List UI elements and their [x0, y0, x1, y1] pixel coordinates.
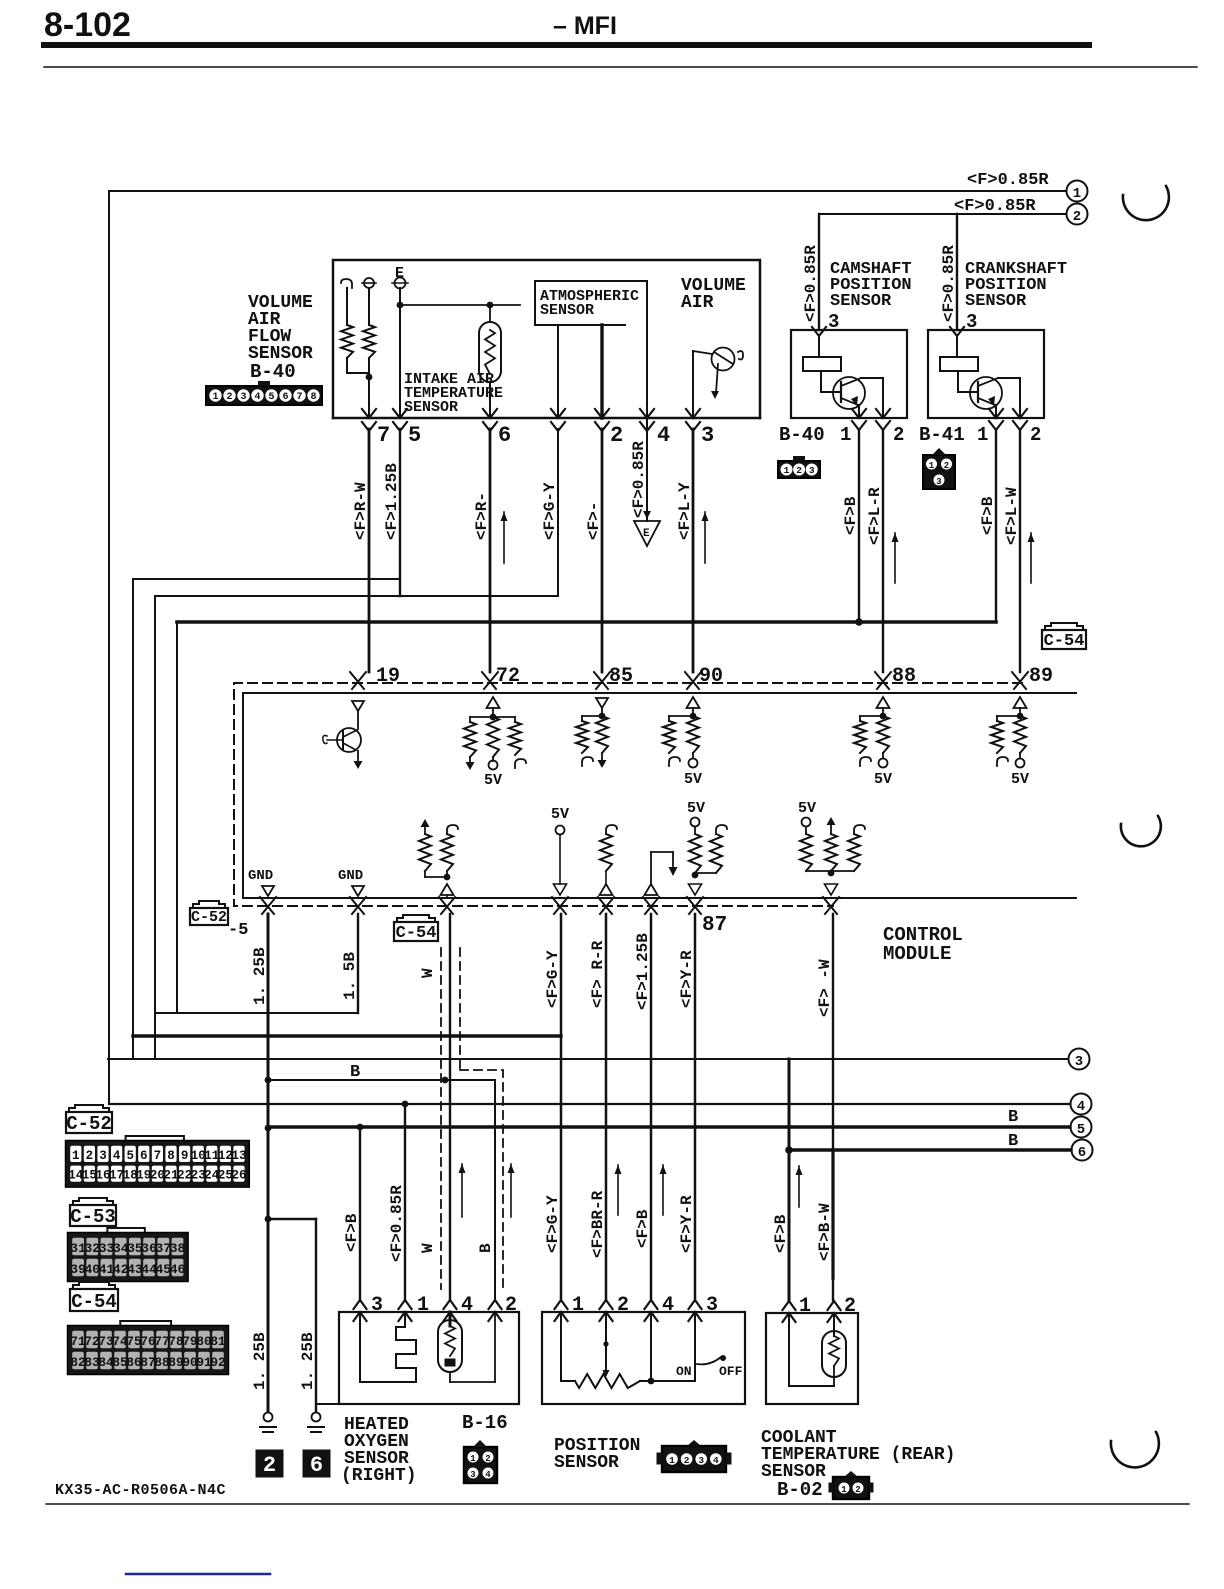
label CAMSHAFT POSITION SENSOR [830, 260, 912, 311]
module pin85 resistors [576, 698, 608, 768]
svg-text:6: 6 [310, 1453, 323, 1478]
O2 sensor pin 4 [444, 1294, 474, 1321]
svg-text:5: 5 [408, 423, 421, 448]
svg-text:8: 8 [167, 1149, 175, 1163]
svg-text:<F>Y-R: <F>Y-R [678, 950, 696, 1008]
svg-text:88: 88 [154, 1356, 169, 1370]
svg-text:<F>G-Y: <F>G-Y [544, 1195, 562, 1253]
position sensor pin 4 [645, 1294, 675, 1321]
wire 1 ignition feed horizontal [109, 190, 1066, 192]
scan artifact blue line [126, 1573, 270, 1576]
shield dashed around W/B wires [441, 948, 503, 1289]
svg-text:4: 4 [113, 1149, 121, 1163]
svg-text:85: 85 [609, 665, 633, 688]
svg-text:1: 1 [929, 461, 935, 471]
label (F)G-Y [544, 1195, 562, 1253]
svg-text:38: 38 [170, 1241, 186, 1256]
module pin19 triangle [352, 701, 364, 711]
label (F)G-Y atmospheric [541, 482, 559, 540]
svg-text:ON: ON [676, 1364, 692, 1379]
label ATMOSPHERIC SENSOR [540, 288, 639, 319]
label W bottom [419, 1243, 437, 1253]
wire camshaft collector to pin 2 [861, 378, 883, 418]
svg-text:W: W [419, 968, 437, 978]
module pin 90 [685, 665, 723, 689]
connector C-54 label mid [394, 915, 438, 943]
label (F)0.85R crankshaft [940, 245, 958, 322]
label INTAKE AIR TEMPERATURE SENSOR [404, 371, 503, 416]
module 5V feed G-Y pin [551, 806, 569, 895]
svg-text:1: 1 [977, 424, 988, 446]
svg-text:7: 7 [154, 1149, 162, 1163]
wire left vertical bus from wire 1 [108, 191, 110, 1104]
wire (F)B to coolant pin1 [788, 1059, 791, 1300]
svg-text:<F>L-W: <F>L-W [1003, 487, 1021, 545]
module bottom pin arrow x695 [687, 897, 703, 914]
wire crankshaft collector to pin 2 [998, 378, 1020, 418]
module bottom pin arrow x268 [260, 897, 276, 914]
svg-text:E: E [643, 528, 650, 540]
svg-text:C-52: C-52 [191, 909, 227, 926]
label (F)BR-R [589, 1190, 607, 1258]
direction arrow crankshaft pin2 [1028, 533, 1035, 583]
svg-text:<F>0.85R: <F>0.85R [630, 441, 648, 518]
svg-text:<F>Y-R: <F>Y-R [678, 1195, 696, 1253]
svg-text:1: 1 [784, 465, 790, 476]
control module inner box [243, 693, 1076, 898]
svg-text:<F>0.85R: <F>0.85R [967, 171, 1049, 190]
label B-02 [777, 1479, 823, 1501]
svg-text:1: 1 [572, 1294, 584, 1317]
svg-text:B: B [477, 1243, 495, 1253]
label (F)L-Y [676, 482, 694, 540]
svg-text:W: W [419, 1243, 437, 1253]
svg-text:<F>G-Y: <F>G-Y [541, 482, 559, 540]
wire camshaft pin1 down [858, 430, 860, 622]
direction arrow W wire [459, 1164, 466, 1217]
connector C-53 pin table [68, 1228, 189, 1282]
O2 sensor pin 2 [489, 1294, 518, 1321]
module bottom pin arrow x447 [439, 897, 455, 914]
label (F)0.85R wire 1 [967, 171, 1049, 190]
connector icon B-40 3-pin [778, 456, 820, 478]
svg-text:13: 13 [231, 1149, 246, 1163]
label 1.5B [341, 952, 359, 1000]
header thin rule [44, 66, 1197, 68]
svg-text:80: 80 [196, 1335, 211, 1349]
position sensor switch [676, 1312, 743, 1381]
module pin 89 [1012, 665, 1053, 689]
svg-text:89: 89 [168, 1356, 183, 1370]
svg-text:5V: 5V [687, 800, 705, 817]
svg-text:88: 88 [892, 665, 916, 688]
scan crescent middle right [1121, 816, 1161, 846]
svg-text:AIR: AIR [681, 293, 714, 313]
svg-text:<F>L-Y: <F>L-Y [676, 482, 694, 540]
module bottom pin arrow x358 [350, 897, 366, 914]
wire camshaft pin2 to module 88 [882, 430, 884, 672]
crankshaft pin 3 [950, 311, 977, 336]
terminal circle 2 [1067, 204, 1088, 226]
node B tap [268, 1063, 495, 1083]
svg-text:7: 7 [377, 423, 390, 448]
connector C-54 label [70, 1282, 118, 1313]
svg-text:5V: 5V [1011, 771, 1029, 788]
connector C-52 label [66, 1105, 112, 1135]
O2 sensing cell [438, 1312, 495, 1382]
module bottom pin arrow x651 [643, 897, 659, 914]
module bottom pin arrow x560 [552, 897, 568, 914]
svg-text:5: 5 [1077, 1122, 1085, 1138]
label (F) R-R module [589, 940, 607, 1008]
module BR-R pull resistor [600, 825, 618, 895]
wire pin6 to module 72 [489, 429, 492, 672]
terminal circle 1 [1067, 181, 1088, 203]
direction arrow pin6 wire [501, 512, 508, 563]
terminal circle 3 [1069, 1049, 1090, 1071]
svg-text:<F>B: <F>B [634, 1209, 652, 1248]
svg-text:(RIGHT): (RIGHT) [341, 1466, 417, 1486]
O2 sensor pin 1 [399, 1294, 430, 1321]
connector C-52 label at module [190, 901, 248, 940]
connector icon B-02 [829, 1471, 873, 1499]
label B shielded [477, 1243, 495, 1253]
svg-text:5V: 5V [684, 771, 702, 788]
svg-text:83: 83 [84, 1356, 99, 1370]
wire camshaft feed from wire 2 [818, 214, 820, 330]
svg-text:<F>-: <F>- [585, 502, 603, 540]
wire 2 horizontal [819, 213, 1066, 215]
svg-text:26: 26 [231, 1169, 246, 1183]
wire (F)B-W to coolant pin2 [832, 914, 834, 1300]
svg-text:3: 3 [698, 1455, 704, 1466]
wire pin3 to module 90 [692, 429, 695, 672]
ground symbol 2 [256, 1413, 283, 1479]
terminal circle 4 [1071, 1094, 1092, 1116]
svg-text:4: 4 [713, 1455, 719, 1466]
wire B to O2 pin2 [494, 1080, 496, 1300]
svg-text:B-40: B-40 [779, 424, 825, 446]
label 1.25B [251, 947, 269, 1005]
module pin 72 [482, 665, 520, 689]
svg-text:<F>B: <F>B [772, 1214, 790, 1253]
svg-text:9: 9 [181, 1149, 189, 1163]
module W output resistors [419, 819, 458, 898]
crankshaft bottom pins [977, 409, 1041, 446]
svg-text:1: 1 [72, 1149, 80, 1163]
module bottom pin arrow x606 [598, 897, 614, 914]
bus wire y1036 heavy [133, 1034, 561, 1037]
module pin 85 [594, 665, 633, 689]
label 1.25B ground 2 [251, 1332, 269, 1390]
svg-text:91: 91 [196, 1356, 211, 1370]
connector C-53 label [70, 1198, 116, 1228]
wire (F)B to O2 pin3 [359, 1127, 361, 1300]
module pin 88 [875, 665, 916, 689]
svg-text:2: 2 [796, 465, 802, 476]
VAF pin 4 [640, 409, 670, 448]
direction arrow B wire [508, 1164, 515, 1217]
wire ground 6 to O2 shield [316, 1403, 339, 1405]
module pin90 resistors [663, 697, 702, 788]
label (F)R- [473, 492, 491, 540]
svg-text:6: 6 [1078, 1145, 1086, 1161]
terminal circle VAF middle [362, 278, 376, 288]
svg-text:<F>R-: <F>R- [473, 492, 491, 540]
svg-text:<F>1.25B: <F>1.25B [634, 933, 652, 1010]
svg-text:1: 1 [799, 1295, 811, 1318]
wire pin5 down [399, 429, 401, 596]
svg-text:2: 2 [485, 1454, 490, 1464]
svg-text:C-54: C-54 [396, 924, 437, 943]
svg-text:72: 72 [84, 1335, 99, 1349]
svg-text:4: 4 [485, 1470, 491, 1480]
label (F)-W module [816, 959, 834, 1017]
module pin72 pull resistors [464, 697, 526, 789]
svg-text:79: 79 [182, 1335, 197, 1349]
wire W shielded [449, 914, 451, 1300]
label (F)B position [634, 1209, 652, 1248]
wire atmospheric left leg G-Y [557, 325, 559, 418]
footer rule [46, 1503, 1189, 1505]
position sensor pin 2 [600, 1294, 630, 1321]
terminal circle 6 [1072, 1140, 1093, 1162]
wire G-Y to position pin1 [560, 914, 563, 1300]
curl terminal left resistor [341, 279, 352, 325]
svg-text:KX35-AC-R0506A-N4C: KX35-AC-R0506A-N4C [55, 1482, 226, 1499]
connector C-54 label near crank [1042, 623, 1086, 651]
svg-text:90: 90 [182, 1356, 197, 1370]
label (F)- pin2 [585, 502, 603, 540]
label (F)0.85R wire 2 [954, 197, 1036, 216]
svg-text:SENSOR: SENSOR [554, 1453, 619, 1473]
svg-text:1: 1 [840, 424, 851, 446]
svg-text:<F>B-W: <F>B-W [816, 1203, 834, 1261]
svg-text:B: B [1008, 1108, 1018, 1127]
wire pin7 to module 19 [368, 429, 371, 672]
svg-text:86: 86 [126, 1356, 141, 1370]
label B bus6 [1008, 1132, 1018, 1151]
svg-text:2: 2 [944, 461, 949, 471]
label VOLUME AIR [681, 276, 746, 313]
label (F)B camshaft pin1 [842, 496, 860, 535]
svg-text:2: 2 [263, 1453, 276, 1478]
module -W pull resistors [798, 800, 865, 895]
intake air temperature sensor thermistor [479, 305, 501, 418]
svg-text:-5: -5 [228, 921, 248, 940]
wire B to position pin4 [650, 914, 653, 1300]
svg-text:<F>B: <F>B [979, 496, 997, 535]
label (F)B coolant [772, 1214, 790, 1253]
control module dashed border [234, 683, 1022, 906]
label (F)1.25B [383, 463, 401, 540]
svg-text:<F> R-R: <F> R-R [589, 940, 607, 1008]
svg-text:<F>0.85R: <F>0.85R [802, 245, 820, 322]
svg-text:46: 46 [170, 1262, 186, 1277]
svg-text:– MFI: – MFI [553, 12, 617, 40]
svg-text:87: 87 [140, 1356, 155, 1370]
svg-text:3: 3 [936, 477, 941, 487]
svg-text:B: B [1008, 1132, 1018, 1151]
label (F)L-R camshaft pin2 [866, 487, 884, 545]
svg-text:<F>L-R: <F>L-R [866, 487, 884, 545]
svg-text:SENSOR: SENSOR [830, 292, 892, 311]
connector icon B-41 2+1 pin [923, 448, 955, 489]
page header title MFI [553, 12, 617, 40]
svg-text:<F>R-W: <F>R-W [352, 482, 370, 540]
wire crankshaft pin1 down [995, 430, 997, 622]
wire G-Y down [557, 429, 559, 596]
ground E triangle pin4 [634, 418, 660, 546]
svg-text:MODULE: MODULE [883, 943, 951, 965]
VAF pin 2 [595, 409, 623, 448]
svg-text:5V: 5V [484, 772, 502, 789]
svg-text:3: 3 [240, 392, 246, 403]
svg-text:<F>BR-R: <F>BR-R [589, 1190, 607, 1258]
svg-text:2: 2 [893, 424, 904, 446]
wire 1.5B ground [357, 914, 359, 1013]
svg-text:1: 1 [669, 1455, 675, 1466]
svg-text:87: 87 [702, 914, 727, 937]
svg-text:<F>0.85R: <F>0.85R [940, 245, 958, 322]
left vertical x133 [132, 579, 134, 1059]
svg-text:4: 4 [657, 423, 670, 448]
page header number 8-102 [44, 6, 131, 44]
VAF pin 7 [362, 409, 390, 448]
terminal circle 5 [1071, 1117, 1092, 1139]
connector icon B-40 8-pin [206, 381, 322, 405]
coolant sensor pin 1 [783, 1295, 812, 1322]
svg-text:90: 90 [699, 665, 723, 688]
wire crankshaft emitter to pin 1 [995, 405, 997, 418]
connector C-54 pin table [68, 1321, 229, 1375]
coolant temperature sensor box [766, 1313, 858, 1404]
svg-text:3: 3 [1075, 1054, 1083, 1070]
label HEATED OXYGEN SENSOR (RIGHT) [341, 1415, 417, 1486]
svg-text:<F>1.25B: <F>1.25B [383, 463, 401, 540]
wire atmospheric to pin 4 [646, 281, 648, 418]
left vertical x155 [154, 596, 156, 1059]
label (F)Y-R [678, 1195, 696, 1253]
position sensor potentiometer [561, 1312, 695, 1388]
coolant sensor thermistor [789, 1313, 846, 1386]
chevron atmospheric G-Y leg [551, 409, 565, 431]
svg-text:72: 72 [496, 665, 520, 688]
wire BR-R to position pin2 [605, 914, 608, 1300]
connector icon B-16 [464, 1440, 497, 1483]
bus wire y600 (sensor ground) [155, 595, 558, 597]
svg-text:OFF: OFF [719, 1364, 743, 1379]
svg-text:B-41: B-41 [919, 424, 965, 446]
svg-text:75: 75 [126, 1335, 141, 1349]
label (F)B crankshaft pin1 [979, 496, 997, 535]
svg-text:GND: GND [248, 868, 273, 884]
svg-text:3: 3 [99, 1149, 107, 1163]
wire E down [399, 288, 401, 418]
bus wire 5 heavy [268, 1124, 1070, 1131]
module bottom pin arrow x831 [823, 897, 839, 914]
bus wire y622 heavy (B ground) [177, 618, 996, 626]
svg-text:3: 3 [470, 1470, 475, 1480]
svg-text:2: 2 [1030, 424, 1041, 446]
label B-41 [919, 424, 965, 446]
left vertical x177 [176, 622, 178, 1013]
direction arrow BR-R [615, 1165, 622, 1215]
svg-text:<F> -W: <F> -W [816, 959, 834, 1017]
module pin 19 [350, 665, 400, 689]
label CRANKSHAFT POSITION SENSOR [965, 260, 1067, 311]
label (F)Y-R module [678, 950, 696, 1008]
svg-text:81: 81 [210, 1335, 225, 1349]
label (F)0.85R O2 [388, 1185, 406, 1262]
svg-text:<F>B: <F>B [343, 1213, 361, 1252]
node E junction [397, 302, 520, 309]
svg-text:<F>0.85R: <F>0.85R [954, 197, 1036, 216]
svg-text:1: 1 [470, 1454, 476, 1464]
svg-text:2: 2 [617, 1294, 629, 1317]
wire volume air pin 3 [692, 351, 694, 418]
svg-text:<F>0.85R: <F>0.85R [388, 1185, 406, 1262]
atmospheric sensor box [535, 281, 647, 325]
svg-text:82: 82 [70, 1356, 85, 1370]
VAF pin 3 [686, 409, 714, 448]
svg-text:5V: 5V [798, 800, 816, 817]
svg-text:6: 6 [498, 423, 511, 448]
crankshaft pickup coil [940, 336, 978, 371]
svg-text:1. 5B: 1. 5B [341, 952, 359, 1000]
direction arrow B position [660, 1165, 667, 1215]
position sensor box [542, 1312, 745, 1404]
svg-text:85: 85 [112, 1356, 127, 1370]
wire Y-R to position pin3 [694, 914, 697, 1300]
label CONTROL MODULE [883, 924, 963, 965]
direction arrow camshaft pin2 [892, 533, 899, 583]
connector C-52 pin table [66, 1136, 250, 1187]
scan crescent bottom right [1111, 1432, 1159, 1467]
ground wire to terminal 2 [267, 1128, 270, 1411]
label W top [419, 968, 437, 978]
svg-text:3: 3 [371, 1294, 383, 1317]
module GND pin 2 [338, 868, 364, 896]
label (F)B-W [816, 1203, 834, 1261]
module pin88 resistors [854, 697, 892, 788]
resistor VAF middle [363, 288, 375, 418]
VAF pin 6 [483, 409, 511, 448]
svg-text:B-02: B-02 [777, 1479, 823, 1501]
camshaft position sensor box [791, 330, 907, 418]
ground symbol 6 [303, 1413, 330, 1479]
label (F)R-W [352, 482, 370, 540]
crankshaft position sensor box [928, 330, 1044, 418]
label 1.25B ground 6 [299, 1332, 317, 1390]
svg-text:4: 4 [1077, 1099, 1085, 1115]
svg-text:8: 8 [310, 392, 316, 403]
svg-text:2: 2 [610, 423, 623, 448]
volume air flow sensor box B-40 [333, 260, 760, 418]
terminal circle E [392, 265, 408, 289]
svg-text:<F>G-Y: <F>G-Y [544, 950, 562, 1008]
svg-text:4: 4 [254, 392, 260, 403]
svg-text:2: 2 [855, 1485, 860, 1495]
label (F)0.85R pin4 [630, 441, 648, 518]
wire crankshaft feed from wire 2 [956, 214, 958, 330]
direction arrow coolant B [796, 1166, 803, 1207]
label (F)G-Y module [544, 950, 562, 1008]
label COOLANT TEMPERATURE (REAR) SENSOR [761, 1428, 955, 1482]
direction arrow pin3 wire [702, 512, 709, 563]
camshaft pickup coil [803, 336, 841, 371]
camshaft transistor Q [821, 371, 865, 409]
